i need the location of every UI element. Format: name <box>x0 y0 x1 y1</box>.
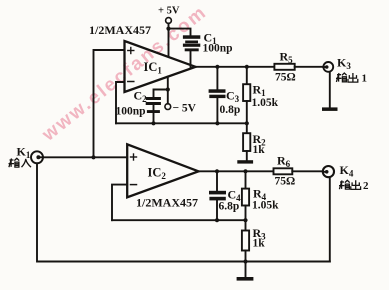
ground below K3 <box>322 107 338 111</box>
svg-text:1/2MAX457: 1/2MAX457 <box>136 196 198 210</box>
node V- / C2 junction <box>166 87 170 91</box>
svg-text:1.05k: 1.05k <box>252 97 279 109</box>
resistor R2 <box>246 123 248 133</box>
node input junction <box>91 155 95 159</box>
svg-text:100np: 100np <box>116 106 146 118</box>
+5V terminal <box>166 18 172 57</box>
pin - of IC1 <box>128 81 134 83</box>
node R1-R2 junction <box>245 121 249 125</box>
wire to main ground <box>245 262 247 278</box>
ground main <box>237 277 254 281</box>
connector K1 <box>31 151 43 163</box>
svg-text:100np: 100np <box>203 43 233 55</box>
wire C3 to feedback line <box>216 98 218 123</box>
wire K4 down to bottom rail <box>329 177 331 261</box>
wire IC1 V- pin <box>167 77 169 104</box>
label output1 (Chinese) <box>336 73 347 82</box>
node R3-bottom rail <box>243 259 247 263</box>
svg-text:75Ω: 75Ω <box>275 176 296 188</box>
wire output line 1 <box>196 66 275 68</box>
wire output to C3 <box>216 67 218 90</box>
wire input line <box>43 156 127 158</box>
label output2 (Chinese) <box>339 180 350 189</box>
svg-text:1k: 1k <box>253 238 266 250</box>
ground below R2 <box>237 160 253 163</box>
pin + of IC2 <box>131 154 137 160</box>
capacitor C1 <box>183 35 200 51</box>
watermark www.elecfans.com <box>38 1 212 146</box>
resistor R5 <box>274 64 294 70</box>
wire K3 to ground <box>329 72 331 108</box>
label input (Chinese) <box>9 158 20 167</box>
svg-text:1k: 1k <box>253 144 266 156</box>
resistor R3 <box>245 220 247 230</box>
svg-text:0.8p: 0.8p <box>220 104 241 116</box>
connector K4 <box>323 166 334 177</box>
wire R2 to ground <box>246 151 248 160</box>
wire feedback line 2 <box>112 219 246 221</box>
node output1-R1 <box>245 65 249 69</box>
node output2-C4 <box>215 169 219 173</box>
node C2-feedback junction <box>151 121 155 125</box>
wire R1 to feedback line <box>246 101 248 123</box>
pin - of IC2 <box>131 184 137 186</box>
wire output2 to R4 <box>245 171 247 188</box>
op-amp U1 IC1 <box>125 41 196 92</box>
node R4-R3 junction <box>243 218 247 222</box>
wire C4 to feedback line 2 <box>216 200 218 220</box>
wire feedback line 1 <box>116 122 247 124</box>
wire C1 to output node <box>190 51 192 67</box>
wire output to R1 <box>246 67 248 84</box>
wire V- to C2 <box>154 90 168 98</box>
wire IC1 -input to feedback line <box>116 82 125 123</box>
wire +5V to C1 <box>169 29 191 36</box>
node output1-C3 <box>215 65 219 69</box>
capacitor C4 <box>209 191 226 201</box>
resistor R4 <box>242 189 249 206</box>
connector K3 <box>323 62 333 72</box>
resistor R6 <box>274 168 293 174</box>
svg-text:2: 2 <box>363 180 369 192</box>
node C3-feedback junction <box>215 121 219 125</box>
svg-text:6.8p: 6.8p <box>219 201 240 213</box>
capacitor C2 <box>146 97 161 113</box>
svg-text:− 5V: − 5V <box>173 103 197 115</box>
wire K1 down and bottom rail <box>37 163 330 261</box>
node output2-R4 <box>243 169 247 173</box>
svg-text:1.05k: 1.05k <box>252 200 279 212</box>
svg-text:75Ω: 75Ω <box>275 72 296 84</box>
wire output2 to C4 <box>216 171 218 190</box>
wire R6 to K4 <box>292 170 323 172</box>
wire R5 to K3 <box>295 66 324 68</box>
capacitor C3 <box>209 89 226 98</box>
svg-text:1: 1 <box>362 73 368 85</box>
node C4-feedback2 junction <box>215 218 219 222</box>
pin + of IC1 <box>128 48 134 54</box>
wire output line 2 <box>199 170 274 172</box>
node +5V junction <box>166 27 170 31</box>
svg-text:+ 5V: + 5V <box>158 6 180 17</box>
wire R4 to feedback line 2 <box>245 206 247 221</box>
wire C2 to feedback line <box>153 105 155 123</box>
wire IC2 -input to feedback line 2 <box>112 185 127 221</box>
wire IC1 +input to input line <box>94 50 125 157</box>
svg-text:1/2MAX457: 1/2MAX457 <box>89 23 151 37</box>
resistor R1 <box>243 84 250 101</box>
op-amp U2 IC2 <box>127 144 198 197</box>
wire R3 to bottom rail <box>245 251 247 262</box>
-5V terminal <box>165 104 171 110</box>
